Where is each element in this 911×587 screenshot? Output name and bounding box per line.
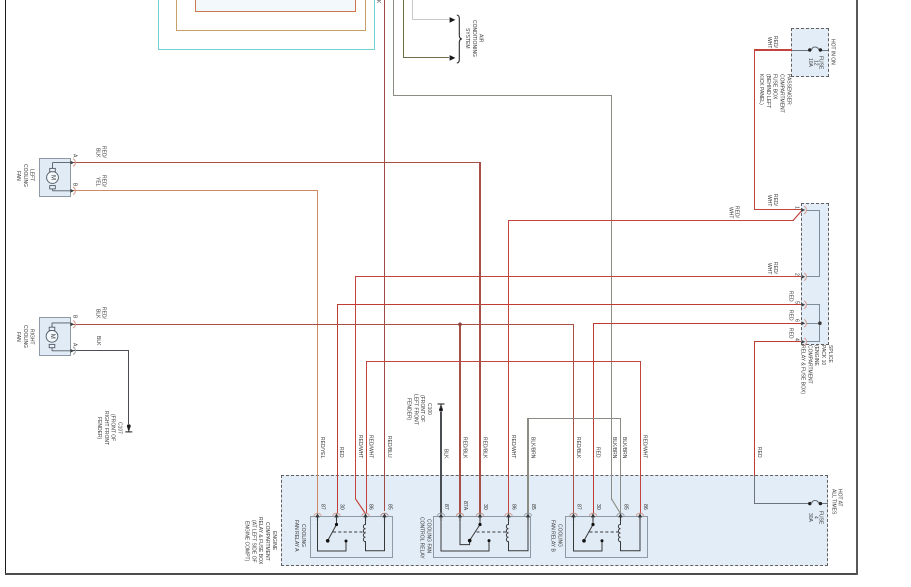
page border right	[856, 0, 858, 575]
wire RED vertical x593 to relay B 30	[593, 323, 594, 515]
svg-text:M: M	[49, 334, 55, 339]
pin number 86 relay A	[368, 497, 373, 510]
diagonal RED/WHT into relay A 86	[356, 499, 366, 514]
wire RED/WHT horizontal y276.5 to splice pin 2	[355, 276, 801, 277]
wire loop orange (inner nested, light blue filled component stub)	[195, 0, 357, 12]
pin number 30 relay A	[339, 497, 344, 510]
label fuse 4 30A	[807, 508, 823, 527]
wire RED/WHT fuse12 vertical x754	[754, 49, 755, 210]
label BLK control 87	[443, 430, 448, 458]
label BLK/BRN relay B 85 a	[611, 430, 616, 458]
svg-text:M: M	[50, 175, 56, 180]
fuse 12 internal gray wire	[792, 50, 810, 51]
label RED/YEL relay A 87	[319, 430, 324, 458]
pin control 87A	[456, 513, 464, 521]
wire olive to A/C horizontal	[403, 57, 449, 58]
label RED at splice pin 4	[788, 325, 793, 339]
label RED at splice pin 6	[788, 307, 793, 321]
wire RED vertical x337 to relay A 30	[337, 304, 338, 514]
wire RED/YEL left fan B horizontal y190.5	[73, 190, 318, 191]
pin number 30 relay B	[595, 497, 600, 510]
label RED/BLU relay A 85	[386, 430, 391, 458]
wire RED/BLK right fan B horizontal y324	[73, 324, 574, 325]
label BLK/BRN relay B 85 b	[621, 430, 626, 458]
splice pin number 5	[794, 296, 799, 304]
label RED relay A 30	[338, 430, 343, 458]
wire RED vertical x754 to fuse 4	[754, 341, 755, 476]
pin number 86 relay B	[642, 497, 647, 510]
wire RED/BLK vertical x573.5 to relay B 87	[573, 324, 574, 514]
pin relay A 86	[362, 513, 370, 521]
splice pin 5	[801, 301, 806, 309]
wire BLK vertical x128.5 to C107	[128, 350, 129, 424]
wire RED/WHT horizontal y220.5 from control 86	[508, 220, 794, 221]
label RED/BLK right fan B	[94, 301, 107, 319]
cooling fan relay B box	[565, 516, 648, 558]
pin number 85 control	[530, 497, 535, 510]
splice pin number 1	[794, 201, 799, 209]
cooling fan control relay box	[433, 516, 531, 558]
wire BLK/BRN horizontal y95	[393, 95, 612, 96]
pin control 87	[437, 513, 445, 521]
fuse box 12 dashed box (passenger compartment)	[791, 28, 829, 77]
label RED/WHT relay A 86 a	[357, 430, 362, 458]
wire RED/WHT fuse12 horizontal	[754, 49, 792, 50]
splice pin 4	[801, 338, 806, 346]
label hot in on	[830, 28, 835, 76]
pin number 87 control	[443, 497, 448, 510]
wire BLK right fan A horizontal y350.5	[73, 350, 129, 351]
splice bracket pins 1-2	[806, 210, 820, 211]
label cooling fan relay B	[549, 517, 563, 554]
left fan motor M1	[47, 163, 70, 191]
label RED/WHT pin 1 horizontal feed	[727, 197, 740, 218]
pin relay A 30	[333, 513, 341, 521]
pin relay B 87	[570, 513, 578, 521]
label RED/YEL left fan B	[94, 169, 107, 187]
arrow to A/C (bottom)	[450, 55, 456, 61]
connector C100	[438, 404, 445, 412]
pin relay B 86	[636, 513, 644, 521]
wire RED/BLK vertical x480 to control relay 30	[479, 162, 480, 514]
wire RED horizontal y304.5 to splice pin 5	[337, 304, 801, 305]
pin relay A 85	[381, 513, 389, 521]
wire RED/WHT vertical x640 to relay B 86	[640, 361, 641, 514]
connector pin right fan B	[70, 321, 75, 329]
wire loop cyan (outer nested)	[158, 0, 376, 50]
wire BLK/BRN vertical x611.5 to relay B 85	[611, 95, 612, 500]
label splice pack	[799, 345, 834, 405]
label cooling fan relay A	[292, 517, 306, 554]
label RED relay B 30	[595, 430, 600, 458]
label BLK/BRN control 85	[530, 430, 535, 458]
connector pin left fan B	[70, 187, 75, 195]
connector C107	[125, 424, 132, 432]
diagonal BLK/BRN into relay B 85	[612, 499, 621, 514]
fuse 4 internal gray wire	[754, 503, 810, 504]
pin number 85 relay A	[387, 497, 392, 510]
arrow to A/C (top)	[450, 17, 456, 23]
wire BLK vertical x441 from C100 to control relay 87	[440, 412, 441, 515]
wire RED horizontal y323 to splice pin 6	[593, 323, 801, 324]
splice pin 2	[801, 273, 806, 281]
pin number 87A control	[462, 497, 467, 510]
wire RED/WHT vertical x508.5 to control relay 86	[508, 220, 509, 514]
pin number 87 relay B	[576, 497, 581, 510]
engine compartment relay & fuse box (big dashed box)	[281, 475, 828, 566]
relay pin terminals (arrow up + cup)	[314, 513, 644, 521]
wire RED/BLU vertical to relay A 85	[384, 0, 385, 511]
wire RED/BLK vertical x460 to control relay 87A	[459, 324, 460, 514]
wire RED/WHT horizontal y209.5 to splice pin 1	[754, 209, 801, 210]
label RED/WHT at splice pin 2	[766, 253, 779, 274]
label fuse 12 10A	[807, 54, 823, 71]
label RED/BLK left fan A	[94, 140, 107, 158]
pin letter A right fan	[72, 342, 77, 349]
splice pin 6	[801, 319, 806, 327]
relay B internal circuit	[574, 522, 641, 551]
label cooling fan control relay	[418, 517, 432, 556]
splice pin number 4	[794, 333, 799, 341]
label RED at splice pin 5	[788, 288, 793, 302]
pin relay B 30	[589, 513, 597, 521]
label RED/WHT at splice pin 1 vertical	[766, 186, 779, 206]
wire WHT to A/C (silver) vertical	[412, 0, 413, 20]
left cooling fan box	[39, 158, 71, 197]
pin number 87 relay A	[320, 497, 325, 510]
wire olive to A/C vertical	[403, 0, 404, 58]
label RED/WHT relay A 86 b	[368, 430, 373, 458]
wire RED horizontal y341.5 from splice pin 4	[754, 341, 801, 342]
label BLK right fan A	[95, 332, 100, 346]
control relay internal circuit	[441, 522, 528, 551]
wire BLK/BRN vertical x528 from control relay 85	[527, 418, 528, 515]
pin number 86 control	[511, 497, 516, 510]
splice pin 1	[801, 206, 806, 214]
wire RED/WHT relay A 86 to relay B 86 horizontal y361.5	[366, 361, 641, 362]
pin relay B 85	[617, 513, 625, 521]
junction splice right fan RED/BLK	[458, 323, 462, 327]
page border left	[5, 0, 6, 575]
right fan motor M2	[46, 323, 70, 351]
pin letter B right fan	[72, 313, 77, 320]
wire RED/YEL vertical x317.5 to relay A 87	[317, 190, 318, 514]
pin letter A left fan	[72, 152, 77, 159]
connector pin left fan A	[70, 159, 75, 167]
relay A internal circuit	[318, 522, 385, 551]
right cooling fan box	[39, 317, 71, 356]
splice bracket pins 5-6-4	[806, 304, 820, 305]
splice pin number 6	[794, 314, 799, 322]
label right cooling fan	[14, 322, 35, 351]
wire loop tan (middle nested)	[176, 0, 366, 31]
label engine compartment relay & fuse box	[243, 515, 278, 568]
label RED fuse 4 feed	[756, 430, 761, 458]
wire BLK/BRN vertical x620.5 to relay B 85	[620, 418, 621, 515]
label RED/WHT relay B 86	[642, 430, 647, 458]
pin number 85 relay B	[623, 497, 628, 510]
label RED/BLK control 30	[482, 430, 487, 458]
wire BLK/BRN loop horizontal y418	[527, 418, 621, 419]
label air conditioning system	[463, 16, 484, 61]
label RED/WHT at fuse 12	[766, 27, 779, 48]
splice pack dashed box	[801, 203, 829, 345]
label RED/WHT control 86	[510, 430, 515, 458]
fuse 12 element	[808, 47, 822, 52]
wire RED/BLK left fan A horizontal y162.3	[73, 162, 481, 163]
page border bottom	[5, 573, 858, 575]
label cut wire K at top	[375, 0, 380, 6]
pin control 86	[505, 513, 513, 521]
wire WHT to A/C (silver) horizontal	[412, 19, 449, 20]
pin number 30 control	[482, 497, 487, 510]
pin control 85	[524, 513, 532, 521]
label left cooling fan	[14, 161, 35, 190]
diagonal RED/WHT into splice pin 1	[793, 211, 801, 221]
junction splice pack pin 6	[818, 321, 822, 325]
splice pin number 2	[794, 268, 799, 276]
connector pin right fan A	[70, 347, 75, 355]
brace air conditioning system	[457, 15, 462, 63]
pin relay A 87	[314, 513, 322, 521]
wire RED/WHT vertical x355.5 to relay A 86	[355, 276, 356, 499]
fuse 4 feed gray vertical x754	[754, 476, 755, 504]
wire RED/WHT vertical x366 to relay A 86	[366, 361, 367, 514]
label connector C107	[95, 405, 123, 451]
label RED/BLK control 87A	[462, 430, 467, 458]
pin letter B left fan	[72, 182, 77, 189]
pin control 30	[476, 513, 484, 521]
label passenger compartment fuse box	[757, 74, 792, 124]
fuse 4 element	[808, 501, 822, 506]
cooling fan relay A box	[310, 516, 394, 558]
label hot at all times	[830, 489, 843, 519]
label connector C100	[405, 387, 433, 431]
wire BLK/BRN from top vertical	[393, 0, 394, 96]
label RED/BLK relay B 87	[575, 430, 580, 458]
